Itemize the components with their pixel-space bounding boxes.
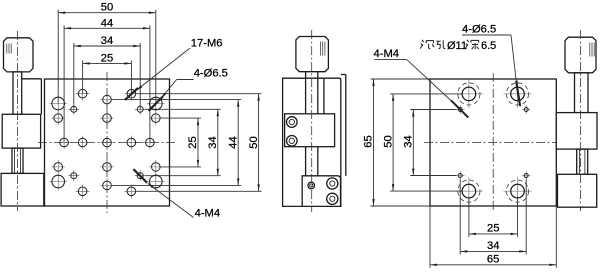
- M6 hole 8: [100, 93, 114, 107]
- extension line (top dims): [139, 43, 141, 109]
- dimension 65 (right view left): [373, 79, 375, 206]
- micrometer knob (left view): [4, 38, 34, 72]
- extension line (top dims): [130, 60, 132, 93]
- svg-text:25: 25: [487, 223, 499, 235]
- svg-text:25: 25: [187, 136, 199, 148]
- big screw 1 (middle view): [327, 178, 338, 189]
- extension line (right dims): [145, 108, 221, 110]
- M6 hole 16: [51, 160, 65, 174]
- M4 hole 1: [68, 104, 79, 115]
- svg-text:50: 50: [248, 136, 260, 148]
- bottom block (middle view): [302, 176, 340, 207]
- axis centerline (right view): [580, 30, 582, 211]
- svg-text:4-M4: 4-M4: [195, 208, 221, 220]
- extension line (top dims): [149, 25, 151, 142]
- bottom plate outline (right view): [430, 79, 556, 206]
- svg-text:50: 50: [101, 2, 113, 14]
- dimension 50 (right view left): [392, 94, 394, 191]
- M6 hole 13: [125, 184, 139, 198]
- dimension 34 (left view right): [217, 109, 219, 175]
- M6 hole 3: [125, 136, 139, 150]
- dimension 44 (left view right): [237, 100, 239, 186]
- M4 hole 2 (right view): [522, 105, 531, 114]
- extension line (right dims): [145, 175, 221, 177]
- small screw (middle view): [308, 182, 315, 189]
- M6 hole 5: [143, 136, 157, 150]
- big screw 2 (middle view): [327, 193, 338, 204]
- dimension 50 (left view top): [58, 12, 156, 14]
- M6 hole 10: [76, 87, 90, 101]
- plate horizontal centerline (right view): [424, 142, 564, 144]
- micrometer clamp block (left view): [2, 114, 40, 148]
- svg-text:4-Ø6.5: 4-Ø6.5: [462, 24, 496, 36]
- M6 hole 9: [100, 179, 114, 193]
- M6 hole 1: [100, 136, 114, 150]
- svg-text:44: 44: [227, 136, 239, 148]
- dimension 34 (right view bottom): [460, 250, 526, 252]
- svg-text:6.5: 6.5: [481, 40, 496, 52]
- label counterbore depth text (CJK): [420, 40, 445, 49]
- extension line (top dims): [155, 10, 157, 104]
- dimension 25 (right view bottom): [469, 233, 518, 235]
- dia6.5 hole 3: [49, 173, 67, 191]
- svg-text:65: 65: [363, 135, 375, 147]
- body inner line a (middle view): [305, 78, 307, 206]
- svg-text:4-Ø6.5: 4-Ø6.5: [194, 67, 228, 79]
- svg-text:34: 34: [207, 136, 219, 148]
- knurl marks on knob: [7, 44, 11, 54]
- M6 hole 15: [149, 111, 163, 125]
- M6 hole 12: [76, 184, 90, 198]
- top plate outline (left view): [45, 79, 170, 206]
- svg-text:34: 34: [101, 35, 113, 47]
- axis centerline (middle view): [311, 30, 313, 212]
- extension line (right dims): [112, 99, 241, 101]
- svg-text:25: 25: [101, 52, 113, 64]
- extension line (top dims): [57, 10, 59, 104]
- extension lines (right view bottom dims): [468, 197, 470, 237]
- dia6.5 hole 2: [147, 95, 165, 113]
- micrometer knob (right view): [565, 37, 596, 73]
- plate vertical centerline (left view): [106, 72, 108, 213]
- extension line (right dims): [160, 166, 201, 168]
- micrometer spindle (left view): [12, 148, 23, 173]
- dimension 34 (right view left): [412, 110, 414, 176]
- M4 hole 1 (right view): [456, 105, 465, 114]
- base block (right view): [558, 174, 597, 207]
- extension line (right dims): [136, 93, 262, 95]
- extension lines (right view left dims): [410, 109, 456, 111]
- dia6.5 hole 1: [49, 95, 67, 113]
- extension line (right dims): [136, 190, 262, 192]
- extension line (right dims): [112, 184, 241, 186]
- counterbore hole 1 (right view): [455, 80, 483, 108]
- counterbore hole 3 (right view): [455, 177, 483, 205]
- counterbore hole 2 (right view): [504, 80, 532, 108]
- extension line (right dims): [160, 117, 201, 119]
- M6 hole 14: [51, 111, 65, 125]
- plate vertical centerline (right view): [492, 73, 494, 212]
- dimension 44 (left view top): [64, 27, 150, 29]
- micrometer axis centerline (left view): [17, 31, 19, 211]
- socket screw 1 (middle view): [287, 117, 298, 128]
- clamp block (middle view): [285, 114, 335, 147]
- svg-text:44: 44: [101, 17, 113, 29]
- M6 hole 6: [100, 111, 114, 125]
- M6 hole 7: [100, 160, 114, 174]
- M4 hole 3: [68, 170, 79, 181]
- svg-text:4-M4: 4-M4: [374, 48, 400, 60]
- base block (left view): [1, 173, 44, 206]
- dia6.5 hole 4: [147, 173, 165, 191]
- stage body (middle view): [283, 78, 341, 206]
- svg-text:50: 50: [382, 135, 394, 147]
- svg-text:65: 65: [487, 254, 499, 266]
- M6 hole 17: [149, 160, 163, 174]
- bracket top sliver (left view): [22, 78, 42, 80]
- dimension 50 (left view right): [258, 94, 260, 192]
- M6 hole 4: [57, 136, 71, 150]
- body inner line b (middle view): [317, 78, 319, 206]
- M6 hole 2: [76, 136, 90, 150]
- micrometer stem (middle view): [305, 72, 307, 79]
- extension line (top dims): [82, 60, 84, 93]
- M4 hole 4 (right view): [522, 171, 531, 180]
- micrometer stem (right view): [575, 73, 589, 113]
- dimension 65 (right view bottom): [430, 264, 556, 266]
- top plate edge sliver (middle view): [341, 74, 346, 76]
- M4 hole 2: [135, 104, 146, 115]
- micrometer knob (middle view): [296, 37, 329, 72]
- extension line (top dims): [63, 25, 65, 142]
- dimension 34 (left view top): [74, 45, 140, 47]
- dimension 25 (left view top): [83, 62, 132, 64]
- dimension 25 (left view right): [197, 118, 199, 167]
- clamp block (right view): [556, 113, 597, 150]
- knurl marks (right view): [590, 43, 594, 57]
- M4 hole 3 (right view): [456, 171, 465, 180]
- M6 hole 11: [125, 87, 139, 101]
- socket screw 2 (middle view): [287, 136, 298, 147]
- svg-text:Ø11: Ø11: [447, 40, 467, 52]
- plate horizontal centerline (left view): [38, 142, 176, 144]
- svg-text:34: 34: [403, 135, 415, 147]
- extension line (top dims): [73, 43, 75, 109]
- spindle (right view): [577, 149, 588, 174]
- body inner line c (middle view): [323, 78, 325, 114]
- knurl marks (middle view): [321, 42, 325, 56]
- micrometer stem (left view): [13, 72, 22, 114]
- svg-text:34: 34: [487, 240, 499, 252]
- svg-text:17-M6: 17-M6: [191, 38, 223, 50]
- counterbore hole 4 (right view): [504, 177, 532, 205]
- M4 hole 4: [135, 170, 146, 181]
